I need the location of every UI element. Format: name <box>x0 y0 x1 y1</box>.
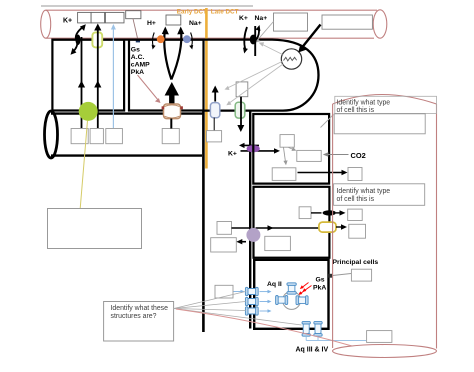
svg-text:Early DCT: Early DCT <box>177 9 207 16</box>
apical aquaporin spools x3 <box>245 287 258 315</box>
pointers from aldosterone circle <box>262 44 283 55</box>
svg-text:Na+: Na+ <box>255 15 268 22</box>
arrow A to B <box>289 148 294 150</box>
identify cell type 2 <box>334 184 425 206</box>
target box 1 <box>348 209 363 220</box>
arrow A to C <box>284 148 286 163</box>
K+ secretion arrows through purple channel <box>243 144 260 146</box>
V arrows into lumen <box>164 30 181 80</box>
svg-text:Gs: Gs <box>131 47 140 54</box>
svg-text:cAMP: cAMP <box>131 62 150 69</box>
svg-text:of cell this is: of cell this is <box>337 107 375 114</box>
box below blue channel <box>207 131 222 142</box>
fan pointer lines <box>174 292 302 326</box>
Na+ side mini arc <box>191 33 193 48</box>
yellow channel <box>319 222 336 232</box>
water exit lines <box>306 336 366 340</box>
label box 5 (pump label) <box>274 13 308 31</box>
HCO3 arrow to blood <box>298 172 344 174</box>
K+ channel black lens <box>76 35 81 46</box>
pointer from green circle to answer box <box>80 121 87 209</box>
right capillary cylinder <box>333 95 437 358</box>
H+ antiporter orange circle <box>157 35 165 43</box>
pointer to principal label box <box>333 274 352 276</box>
blue channel arrow up <box>214 90 216 102</box>
vesicle spool right <box>296 296 308 305</box>
Early DCT cell 1 box <box>52 40 124 111</box>
bottom-left capillary cylinder <box>45 111 204 158</box>
thick Na/Cl reabsorption arrow <box>169 94 174 105</box>
vesicle spool top <box>287 283 296 294</box>
arrow from purple circle to lumen <box>240 241 246 243</box>
vesicle spool left <box>276 296 288 305</box>
purple K+ channel <box>247 145 260 152</box>
Na+ symporter blue circle <box>183 35 191 43</box>
principal cell box <box>254 260 328 329</box>
transport path through cell B upper <box>232 227 250 229</box>
ROMK channel (yellow-green pill) <box>92 32 102 47</box>
thick arrow from hormone label to circle <box>302 25 321 48</box>
basolateral label boxes <box>71 129 179 144</box>
Na/K pump at bend <box>254 26 256 56</box>
green channel label box <box>236 82 248 97</box>
arrow out of yellow channel <box>336 226 343 228</box>
svg-text:Aq III & IV: Aq III & IV <box>296 347 329 354</box>
green basolateral channel <box>235 102 245 118</box>
lumen water box <box>215 285 233 298</box>
identify structures box <box>104 302 174 342</box>
svg-text:Gs: Gs <box>316 277 325 284</box>
transport line A <box>81 37 83 128</box>
svg-text:Principal cells: Principal cells <box>333 259 379 266</box>
arrow out of lens <box>336 212 342 214</box>
cell B lower inner box <box>265 236 291 250</box>
NCC basolateral stub <box>170 119 172 129</box>
green junction circle <box>79 102 98 121</box>
svg-text:Identify what type: Identify what type <box>337 100 391 107</box>
K+ recycling curved arrow <box>73 27 84 52</box>
collecting duct left wall <box>202 110 205 332</box>
answer box 1 <box>334 114 425 134</box>
svg-text:PkA: PkA <box>131 69 144 76</box>
grey top line <box>41 5 253 7</box>
PkA red arrows <box>305 286 312 291</box>
PkA to NCC pink arrow <box>138 75 159 101</box>
identify pointer to cell A <box>321 115 334 128</box>
intercalated cell A box <box>253 114 329 184</box>
Early/Late DCT divider orange line <box>205 8 208 169</box>
water target box <box>367 331 392 343</box>
intercalated cell B box <box>254 187 330 258</box>
HCO3 target box <box>348 168 362 181</box>
aldosterone circle with squiggle <box>281 49 301 69</box>
transport line B <box>97 28 99 128</box>
pointer from box5 to pump <box>258 22 274 41</box>
principal label box <box>351 269 371 281</box>
svg-text:Na+: Na+ <box>189 20 202 27</box>
apical membrane + hairpin hook curve <box>52 40 318 111</box>
box C <box>272 168 296 181</box>
svg-text:structures are?: structures are? <box>111 313 157 320</box>
svg-text:H+: H+ <box>147 20 156 27</box>
svg-text:K+: K+ <box>63 18 72 25</box>
svg-text:Identify what type: Identify what type <box>337 188 391 195</box>
svg-text:PkA: PkA <box>313 285 326 292</box>
top tubule cylinder (lumen) <box>41 10 387 38</box>
water arrows into cell x3 <box>260 290 272 313</box>
blue channel stub <box>213 118 215 131</box>
lumen substrate box 1 <box>217 222 232 235</box>
green channel arrow down <box>240 97 242 127</box>
box B <box>297 150 321 161</box>
svg-text:A.C.: A.C. <box>131 54 145 61</box>
target box 2 <box>349 224 366 238</box>
receptor dot <box>136 39 140 43</box>
receptor pointer line <box>133 19 138 39</box>
receptor dot principal <box>328 274 332 278</box>
svg-text:of cell this is: of cell this is <box>337 196 375 203</box>
box A <box>280 135 294 148</box>
label box 6 (hormone label) <box>322 15 372 29</box>
blue basolateral channel <box>210 103 219 118</box>
black lens on cell B right membrane <box>323 210 336 215</box>
lumen box above V arrows <box>166 15 181 25</box>
lumen box 2 <box>211 238 237 252</box>
NCC channel (red pill) <box>164 104 181 119</box>
line to lens <box>311 212 322 214</box>
svg-text:Aq II: Aq II <box>267 281 282 288</box>
identify cell type 1 <box>335 96 437 113</box>
svg-text:K+: K+ <box>228 151 237 158</box>
svg-text:CO2: CO2 <box>351 151 366 160</box>
capillary pointer pink <box>176 309 352 346</box>
basolateral aquaporins Aq III IV <box>302 321 322 336</box>
svg-text:Identify what these: Identify what these <box>111 305 169 312</box>
water arrow from box <box>234 291 242 293</box>
AQP2 vesicle <box>283 291 301 309</box>
water line light blue <box>112 27 114 128</box>
svg-text:Late DCT: Late DCT <box>211 9 239 16</box>
Early DCT cell 2 box <box>129 40 204 111</box>
svg-text:K+: K+ <box>239 15 248 22</box>
cell B inner box <box>299 207 311 219</box>
lumen label boxes row <box>78 11 141 23</box>
bicarb secretion purple circle <box>246 228 260 242</box>
collecting duct right wall <box>249 112 251 329</box>
H+ efflux mini arc <box>152 33 154 48</box>
big answer box left <box>48 209 142 249</box>
CO2 arrow <box>327 154 349 156</box>
